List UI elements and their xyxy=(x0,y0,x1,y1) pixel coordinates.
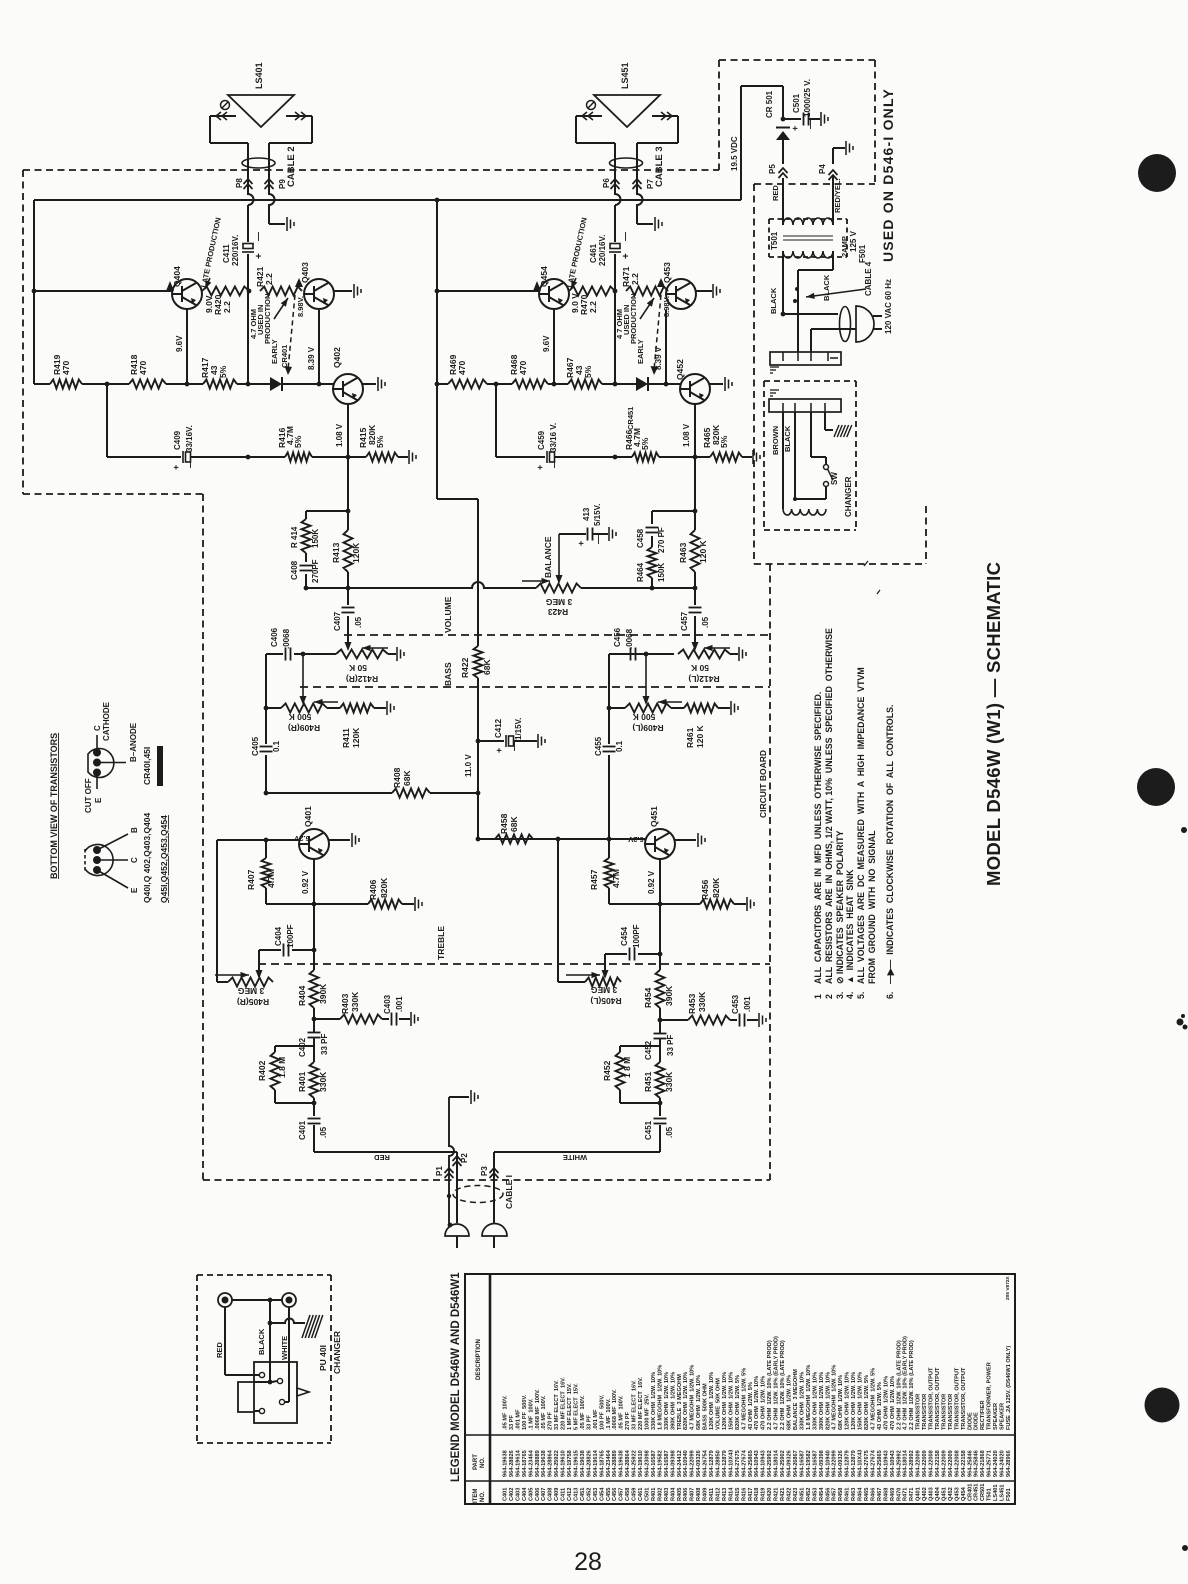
svg-text:820K OHM 1/2W. 10%: 820K OHM 1/2W. 10% xyxy=(683,1372,689,1430)
wire R458 row xyxy=(478,838,533,840)
svg-text:964-25846: 964-25846 xyxy=(967,1450,973,1477)
svg-text:120K: 120K xyxy=(351,542,361,563)
svg-text:964-22099: 964-22099 xyxy=(690,1450,696,1477)
wire rail jog xyxy=(437,498,478,500)
resistor R401 xyxy=(310,1062,319,1098)
svg-text:⊘ INDICATES SPEAKER POLARITY: ⊘ INDICATES SPEAKER POLARITY xyxy=(835,831,845,984)
wire black fuse xyxy=(797,270,799,352)
svg-text:C461: C461 xyxy=(638,1488,644,1501)
connector chevron xyxy=(633,179,642,189)
junction xyxy=(448,1223,453,1228)
svg-text:P3: P3 xyxy=(480,1166,489,1176)
svg-text:C407: C407 xyxy=(333,611,342,631)
svg-text:R456: R456 xyxy=(700,879,710,900)
wire switch top xyxy=(825,457,827,464)
junction xyxy=(346,509,351,514)
svg-text:.05 MF 100V.: .05 MF 100V. xyxy=(619,1395,625,1430)
svg-text:C461: C461 xyxy=(589,243,598,263)
wire xyxy=(209,116,211,143)
BASS dashed line xyxy=(300,686,770,688)
ink speck xyxy=(864,561,880,594)
svg-text:2.2: 2.2 xyxy=(222,301,232,313)
svg-text:964-16587: 964-16587 xyxy=(664,1450,670,1477)
wire R402 bottom xyxy=(275,1102,314,1104)
svg-text:R470: R470 xyxy=(896,1488,902,1501)
ground xyxy=(713,284,720,298)
arrow xyxy=(571,278,577,289)
wire supply riser xyxy=(740,86,742,200)
wire 9.6V emitter xyxy=(186,309,188,384)
svg-text:C413: C413 xyxy=(574,1488,580,1501)
resistor R402 xyxy=(271,1052,280,1090)
svg-text:R405(L): R405(L) xyxy=(590,996,621,1006)
svg-text:R404: R404 xyxy=(297,985,307,1006)
svg-text:964-28966: 964-28966 xyxy=(1006,1450,1012,1477)
ground xyxy=(354,284,361,298)
svg-text:C456: C456 xyxy=(613,627,622,647)
svg-text:330K: 330K xyxy=(664,1071,674,1092)
wire C406 to bass xyxy=(265,654,267,708)
transistor Q401 xyxy=(299,829,329,859)
resistor R415 xyxy=(366,453,398,462)
svg-text:R464: R464 xyxy=(858,1487,864,1501)
svg-text:RED: RED xyxy=(215,1342,224,1358)
svg-text:C453: C453 xyxy=(593,1488,599,1501)
svg-text:.05: .05 xyxy=(354,616,363,628)
ink speck xyxy=(1177,1014,1188,1030)
heat sink mark Q453 xyxy=(657,278,665,287)
wire xyxy=(651,536,653,547)
svg-text:+: + xyxy=(254,253,265,259)
PU401 dashed box left xyxy=(196,1275,198,1443)
svg-text:964-28864: 964-28864 xyxy=(625,1449,631,1477)
wire C459 row xyxy=(496,456,545,458)
ground xyxy=(409,450,416,464)
wire center rail lower xyxy=(477,741,479,839)
svg-text:ALL RESISTORS ARE IN OHMS,: ALL RESISTORS ARE IN OHMS, 1/2 WATT, 10%… xyxy=(824,628,834,984)
ground xyxy=(609,527,616,541)
svg-text:964-22008: 964-22008 xyxy=(929,1450,935,1477)
ground xyxy=(759,1013,766,1027)
changer motor coil xyxy=(783,509,826,515)
connector chevron xyxy=(453,1156,462,1166)
dashed border stub xyxy=(925,506,927,564)
junction xyxy=(693,455,698,460)
svg-text:CR 501: CR 501 xyxy=(765,90,774,118)
svg-text:Q452: Q452 xyxy=(948,1487,954,1501)
svg-text:R409(L): R409(L) xyxy=(632,723,663,733)
svg-text:964-28826: 964-28826 xyxy=(509,1450,515,1477)
svg-text:470: 470 xyxy=(457,361,467,375)
wire xyxy=(602,383,638,385)
wire xyxy=(313,1046,315,1062)
wire to chassis with hop xyxy=(270,1319,305,1324)
svg-text:C459: C459 xyxy=(632,1488,638,1501)
wire xyxy=(347,572,349,588)
wire bias chain xyxy=(247,291,249,384)
svg-text:330K OHM 1/2W. 10%: 330K OHM 1/2W. 10% xyxy=(812,1372,818,1430)
strip tick xyxy=(782,352,784,361)
svg-text:964-24412: 964-24412 xyxy=(677,1450,683,1477)
ground xyxy=(378,377,385,391)
transistor Q451 xyxy=(645,829,675,859)
junction xyxy=(613,382,618,387)
T501 box left xyxy=(768,219,770,257)
svg-text:C403: C403 xyxy=(383,994,392,1014)
svg-text:330K: 330K xyxy=(318,1071,328,1092)
svg-text:LS451: LS451 xyxy=(620,62,630,89)
wire switch bottom xyxy=(825,487,827,499)
transistor Q454 xyxy=(539,279,569,309)
svg-text:.05 MF 100V.: .05 MF 100V. xyxy=(580,1395,586,1430)
svg-text:964-25865: 964-25865 xyxy=(748,1450,754,1477)
svg-text:0.92 V: 0.92 V xyxy=(301,870,310,894)
svg-text:Q454: Q454 xyxy=(961,1486,967,1501)
wire to driver xyxy=(347,457,349,511)
wire xyxy=(398,456,408,458)
svg-text:68K OHM 1/2W. 10%: 68K OHM 1/2W. 10% xyxy=(787,1375,793,1430)
capacitor C459 xyxy=(547,451,555,463)
wire R464 branch bottom xyxy=(652,587,695,589)
heat sink mark Q454 xyxy=(533,281,541,291)
svg-text:R451: R451 xyxy=(643,1071,653,1092)
svg-text:470 OHM 1/2W. 10%: 470 OHM 1/2W. 10% xyxy=(761,1376,767,1430)
svg-text:SW: SW xyxy=(830,472,839,485)
svg-text:TRANSISTOR, OUTPUT: TRANSISTOR, OUTPUT xyxy=(954,1367,960,1430)
svg-text:5 MF ELECT 15V.: 5 MF ELECT 15V. xyxy=(574,1383,580,1430)
wire xyxy=(694,572,696,588)
clockwise arrow R423 xyxy=(522,578,550,584)
capacitor C457 xyxy=(689,608,702,613)
junction xyxy=(268,1380,273,1385)
junction xyxy=(301,652,306,657)
wire xyxy=(646,653,674,655)
resistor R466 xyxy=(632,453,659,462)
svg-text:BALANCE: BALANCE xyxy=(543,536,553,578)
wire xyxy=(382,1018,389,1020)
svg-text:.05: .05 xyxy=(319,1126,328,1138)
transistor Q453 xyxy=(666,279,696,309)
svg-text:220 MF ELECT 16V.: 220 MF ELECT 16V. xyxy=(561,1377,567,1430)
svg-text:33/16V.: 33/16V. xyxy=(185,425,194,452)
svg-text:R452: R452 xyxy=(602,1060,612,1081)
svg-text:964-26867: 964-26867 xyxy=(793,1450,799,1477)
svg-text:LS451: LS451 xyxy=(1000,1485,1006,1501)
svg-text:—: — xyxy=(805,120,815,129)
connector chevron xyxy=(779,168,788,178)
wire xyxy=(651,511,653,524)
svg-text:68K: 68K xyxy=(509,816,519,832)
svg-text:.05: .05 xyxy=(701,616,710,628)
wire white xyxy=(288,1307,290,1402)
ground xyxy=(655,217,662,231)
svg-text:DIODE: DIODE xyxy=(974,1412,980,1430)
svg-text:R458: R458 xyxy=(499,813,509,834)
svg-text:120K: 120K xyxy=(351,727,361,748)
svg-text:C401: C401 xyxy=(298,1120,307,1140)
ground xyxy=(725,377,732,391)
svg-text:270 PF: 270 PF xyxy=(657,527,666,553)
svg-text:964-19582: 964-19582 xyxy=(806,1450,812,1477)
wire xyxy=(659,1125,661,1152)
svg-text:C412: C412 xyxy=(567,1488,573,1501)
terminal strip 2 xyxy=(769,399,841,412)
wire to chassis xyxy=(824,412,826,430)
svg-text:5%: 5% xyxy=(583,365,593,378)
svg-text:1 MF ELECT 15V.: 1 MF ELECT 15V. xyxy=(567,1383,573,1430)
svg-text:100PF: 100PF xyxy=(286,924,295,948)
svg-text:964-16587: 964-16587 xyxy=(812,1450,818,1477)
svg-text:P2: P2 xyxy=(460,1153,469,1163)
svg-text:R404: R404 xyxy=(670,1487,676,1501)
T501 box right xyxy=(846,219,848,257)
chevron marks xyxy=(216,112,227,120)
wire R414 branch xyxy=(306,510,348,512)
svg-text:DESCRIPTION: DESCRIPTION xyxy=(476,1339,482,1380)
svg-text:2.2 OHM 1/2W. 10% (LATE PROD): 2.2 OHM 1/2W. 10% (LATE PROD) xyxy=(896,1340,902,1430)
svg-text:4.7 MEGOHM 1/2W. 5%: 4.7 MEGOHM 1/2W. 5% xyxy=(741,1368,747,1430)
wire xyxy=(34,383,50,385)
wire P1 shield with hop xyxy=(449,1097,454,1225)
svg-text:R409(R): R409(R) xyxy=(288,723,320,733)
svg-text:LS401: LS401 xyxy=(254,62,264,89)
svg-text:—: — xyxy=(185,459,195,468)
svg-text:MODEL D546W (W1) — SCHEMATIC: MODEL D546W (W1) — SCHEMATIC xyxy=(983,562,1004,886)
svg-text:964-16587: 964-16587 xyxy=(651,1450,657,1477)
svg-text:R457: R457 xyxy=(832,1488,838,1501)
svg-text:68K: 68K xyxy=(482,659,492,675)
svg-text:BLACK: BLACK xyxy=(769,287,778,314)
wire secondary black left xyxy=(782,251,784,314)
wire red to contact xyxy=(225,1374,259,1376)
wire xyxy=(677,116,679,143)
svg-text:120K OHM 1/2W. 10%: 120K OHM 1/2W. 10% xyxy=(722,1372,728,1430)
svg-text:28: 28 xyxy=(574,1548,602,1576)
svg-text:R466: R466 xyxy=(870,1488,876,1501)
wire bias chain right xyxy=(614,291,616,384)
svg-text:—: — xyxy=(549,459,559,468)
svg-text:R458: R458 xyxy=(838,1488,844,1501)
resistor R464 xyxy=(648,547,657,578)
svg-text:C409: C409 xyxy=(173,430,182,450)
svg-text:R413: R413 xyxy=(331,542,341,563)
wire to C405 xyxy=(265,708,267,744)
svg-text:R408: R408 xyxy=(696,1488,702,1501)
resistor R420 xyxy=(202,287,249,296)
svg-text:C501: C501 xyxy=(792,93,801,113)
cartridge contacts xyxy=(259,1372,284,1413)
wire xyxy=(659,1039,661,1046)
svg-text:R405(R): R405(R) xyxy=(237,997,269,1007)
wire xyxy=(605,953,627,955)
resistor R453 xyxy=(688,1016,730,1025)
resistor R422 xyxy=(474,646,483,678)
svg-text:C403: C403 xyxy=(515,1488,521,1501)
svg-text:120 K: 120 K xyxy=(698,539,708,563)
resistor R470 xyxy=(569,287,615,296)
wire brown xyxy=(782,412,784,509)
svg-text:+: + xyxy=(576,541,586,546)
svg-text:964-19638: 964-19638 xyxy=(580,1450,586,1477)
svg-text:964-24020: 964-24020 xyxy=(993,1450,999,1477)
svg-text:PU 40I: PU 40I xyxy=(318,1345,328,1371)
capacitor C405 xyxy=(260,747,273,752)
wire to Q452 xyxy=(647,383,680,385)
svg-text:964-19615: 964-19615 xyxy=(574,1450,580,1477)
svg-text:CIRCUIT BOARD: CIRCUIT BOARD xyxy=(758,750,768,818)
svg-text:TRANSISTOR: TRANSISTOR xyxy=(916,1394,922,1430)
wire to strip xyxy=(810,329,812,352)
svg-text:964-18014: 964-18014 xyxy=(774,1449,780,1477)
svg-text:820K OHM 1/2W. 10%: 820K OHM 1/2W. 10% xyxy=(825,1372,831,1430)
svg-text:.0068 MF 100V.: .0068 MF 100V. xyxy=(535,1389,541,1430)
wire xyxy=(638,953,660,955)
heat sink mark Q403 xyxy=(295,278,303,287)
svg-text:Q404: Q404 xyxy=(935,1486,941,1501)
AC cable loop xyxy=(840,307,851,342)
junction xyxy=(312,948,317,953)
svg-text:964-18014: 964-18014 xyxy=(903,1449,909,1477)
svg-text:6.: 6. xyxy=(885,992,895,999)
svg-text:33 PF: 33 PF xyxy=(666,1035,675,1056)
svg-text:ALL CAPACITORS ARE IN MFD: ALL CAPACITORS ARE IN MFD UNLESS OTHERWI… xyxy=(813,692,823,984)
junction xyxy=(693,586,698,591)
svg-text:Q401: Q401 xyxy=(916,1487,922,1501)
wire Q402 emitter xyxy=(347,404,349,457)
svg-text:▲ INDICATES HEAT SINK: ▲ INDICATES HEAT SINK xyxy=(845,869,855,984)
wire R408 row xyxy=(266,792,392,794)
svg-text:500 K: 500 K xyxy=(632,712,656,722)
wire Q452 collector xyxy=(710,383,723,385)
clockwise arrow R409(L) xyxy=(658,699,682,705)
jack 1 xyxy=(218,1293,232,1307)
svg-text:964-10943: 964-10943 xyxy=(761,1450,767,1477)
svg-text:R405: R405 xyxy=(677,1488,683,1501)
diode CR401 bottom view xyxy=(88,735,126,789)
svg-text:RED/YEL.: RED/YEL. xyxy=(833,178,842,213)
svg-text:5%: 5% xyxy=(375,435,385,448)
svg-text:CABLE 4: CABLE 4 xyxy=(864,261,873,296)
connector chevron xyxy=(611,179,620,189)
wire Q452 emitter xyxy=(694,404,696,457)
wire below plug xyxy=(493,1236,495,1248)
transistor Q404 xyxy=(172,279,202,309)
svg-text:964-22158: 964-22158 xyxy=(961,1450,967,1477)
wire R453 row xyxy=(660,1019,688,1021)
svg-text:P5: P5 xyxy=(768,164,777,174)
svg-text:964-09326: 964-09326 xyxy=(838,1450,844,1477)
svg-text:Q40I,Q 402,Q403,Q404: Q40I,Q 402,Q403,Q404 xyxy=(142,812,152,903)
svg-text:R420: R420 xyxy=(767,1488,773,1501)
svg-text:470: 470 xyxy=(518,361,528,375)
svg-text:964-28889: 964-28889 xyxy=(535,1450,541,1477)
speaker LS401 xyxy=(228,95,294,127)
svg-text:R415: R415 xyxy=(735,1488,741,1501)
wire xyxy=(730,653,738,655)
junction xyxy=(658,952,663,957)
wire Q402 collector xyxy=(363,383,376,385)
wire Q403 collector xyxy=(334,290,352,292)
svg-text:1 8 M: 1 8 M xyxy=(622,1057,632,1078)
svg-text:TRANSISTOR: TRANSISTOR xyxy=(948,1394,954,1430)
wire xyxy=(558,981,585,983)
svg-text:100 PF 500V.: 100 PF 500V. xyxy=(599,1394,605,1430)
svg-text:964-22009: 964-22009 xyxy=(922,1450,928,1477)
svg-text:BLACK: BLACK xyxy=(783,425,792,452)
svg-text:R401: R401 xyxy=(297,1071,307,1092)
svg-text:R414: R414 xyxy=(728,1487,734,1501)
svg-text:—: — xyxy=(593,535,603,544)
svg-text:964-27674: 964-27674 xyxy=(741,1449,747,1477)
svg-text:C412: C412 xyxy=(494,718,503,738)
svg-text:C402: C402 xyxy=(509,1488,515,1501)
svg-text:TRANSISTOR: TRANSISTOR xyxy=(922,1394,928,1430)
svg-text:R453: R453 xyxy=(812,1488,818,1501)
wire to Q402 xyxy=(281,383,333,385)
svg-text:270PF: 270PF xyxy=(311,559,320,583)
junction xyxy=(435,198,440,203)
junction xyxy=(246,455,251,460)
svg-text:WHITE: WHITE xyxy=(563,1153,587,1162)
svg-text:E: E xyxy=(130,887,139,893)
resistor R457 xyxy=(605,858,614,888)
resistor R461 xyxy=(684,704,718,713)
power section dashed border left xyxy=(753,184,755,564)
circuit board dashed border top xyxy=(23,169,719,171)
svg-text:964-28850: 964-28850 xyxy=(716,1450,722,1477)
svg-text:Q451: Q451 xyxy=(941,1487,947,1501)
wire P3 xyxy=(493,1152,495,1223)
svg-text:C452: C452 xyxy=(586,1488,592,1501)
svg-text:5%: 5% xyxy=(719,435,729,448)
svg-text:330K OHM 1/2W. 10%: 330K OHM 1/2W. 10% xyxy=(651,1372,657,1430)
svg-text:LEGEND MODEL D546W AND D546W1: LEGEND MODEL D546W AND D546W1 xyxy=(450,1272,462,1482)
svg-text:964-23464: 964-23464 xyxy=(606,1449,612,1477)
wire P2 xyxy=(456,1152,458,1223)
svg-text:5.: 5. xyxy=(856,992,866,999)
svg-text:C407: C407 xyxy=(541,1488,547,1501)
svg-text:C458: C458 xyxy=(636,528,645,548)
svg-text:+: + xyxy=(494,748,504,753)
wire xyxy=(487,383,512,385)
junction xyxy=(435,289,440,294)
wire xyxy=(609,653,646,655)
svg-text:120K OHM 1/2W. 10%: 120K OHM 1/2W. 10% xyxy=(709,1372,715,1430)
svg-text:F501: F501 xyxy=(1006,1488,1012,1501)
svg-text:5/15V.: 5/15V. xyxy=(593,504,602,526)
svg-text:Q453: Q453 xyxy=(662,262,672,283)
wire xyxy=(266,707,281,709)
svg-text:964-25846: 964-25846 xyxy=(974,1450,980,1477)
wire Q451 base xyxy=(533,838,645,840)
svg-text:R412(L): R412(L) xyxy=(688,674,719,684)
legend table frame xyxy=(465,1274,1015,1504)
resistor R403 xyxy=(340,1015,382,1024)
wire xyxy=(659,1020,661,1033)
capacitor C411 xyxy=(242,244,254,253)
svg-text:BLACK: BLACK xyxy=(257,1328,266,1355)
wire P4 red-yel xyxy=(832,176,834,225)
wiper arrow treble left xyxy=(256,970,263,979)
svg-text:4.7 OHM 1/2W. 10% (EARLY PROD: 4.7 OHM 1/2W. 10% (EARLY PROD) xyxy=(774,1336,780,1430)
wire xyxy=(313,1038,315,1046)
wire R418 to C409 xyxy=(106,384,108,457)
speaker polarity symbol xyxy=(221,101,230,110)
svg-text:4.7 OHM 1/2W. 10% (EARLY PROD: 4.7 OHM 1/2W. 10% (EARLY PROD) xyxy=(903,1336,909,1430)
TREBLE dashed line xyxy=(258,963,770,965)
wire P-right with hop over bus xyxy=(269,143,275,224)
svg-text:68K OHM 1/2W. 10%: 68K OHM 1/2W. 10% xyxy=(838,1375,844,1430)
